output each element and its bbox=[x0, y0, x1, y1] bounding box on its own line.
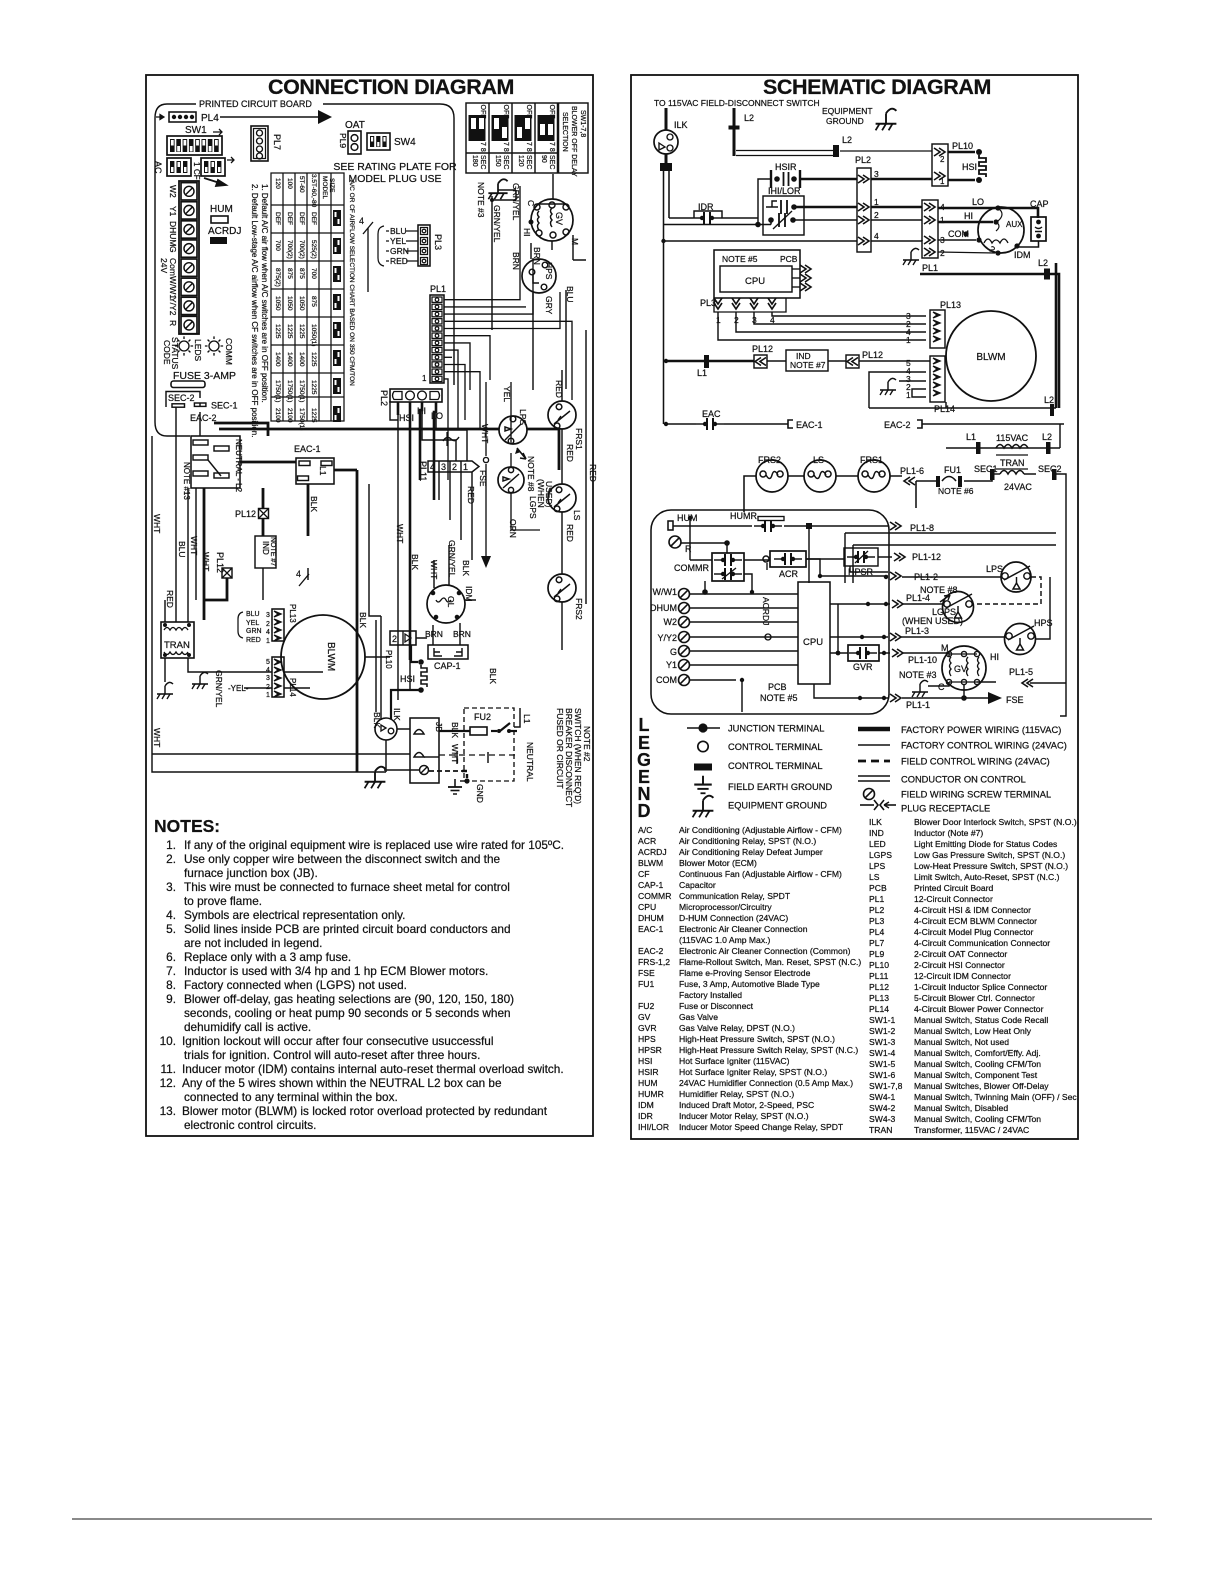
svg-text:Fuse, 3 Amp, Automotive Blade: Fuse, 3 Amp, Automotive Blade Type bbox=[679, 979, 820, 989]
svg-text:L1: L1 bbox=[522, 714, 532, 724]
svg-text:CAP: CAP bbox=[1030, 199, 1049, 209]
svg-text:YEL: YEL bbox=[246, 620, 259, 627]
svg-text:120: 120 bbox=[274, 178, 281, 189]
svg-text:3: 3 bbox=[441, 462, 446, 472]
svg-text:seconds, cooling or heat pump: seconds, cooling or heat pump 90 seconds… bbox=[184, 1006, 511, 1020]
svg-text:3: 3 bbox=[266, 675, 270, 682]
svg-text:PL3: PL3 bbox=[433, 234, 443, 250]
svg-text:PL13: PL13 bbox=[940, 300, 961, 310]
svg-text:This wire must be connected to: This wire must be connected to furnace s… bbox=[184, 880, 510, 894]
svg-text:HPS: HPS bbox=[544, 262, 554, 280]
svg-text:PLUG RECEPTACLE: PLUG RECEPTACLE bbox=[901, 804, 990, 814]
svg-text:2: 2 bbox=[392, 634, 397, 644]
svg-text:LS: LS bbox=[813, 455, 824, 465]
svg-text:FIELD WIRING SCREW TERMINAL: FIELD WIRING SCREW TERMINAL bbox=[901, 790, 1051, 800]
svg-text:Manual Switch, Component Test: Manual Switch, Component Test bbox=[914, 1070, 1038, 1080]
svg-text:1: 1 bbox=[463, 462, 468, 472]
svg-text:ILK: ILK bbox=[869, 817, 882, 827]
svg-text:BLK: BLK bbox=[461, 560, 471, 576]
svg-text:EAC-2: EAC-2 bbox=[190, 413, 217, 423]
svg-text:Blower motor (BLWM) is locked: Blower motor (BLWM) is locked rotor over… bbox=[182, 1104, 548, 1118]
svg-text:EAC-1: EAC-1 bbox=[294, 444, 321, 454]
svg-text:HUM: HUM bbox=[677, 513, 698, 523]
svg-text:Manual Switches, Blower Off-De: Manual Switches, Blower Off-Delay bbox=[914, 1081, 1049, 1091]
svg-text:Use only copper wire between t: Use only copper wire between the disconn… bbox=[184, 852, 501, 866]
svg-text:CONNECTION DIAGRAM: CONNECTION DIAGRAM bbox=[268, 75, 514, 99]
svg-text:GVR: GVR bbox=[853, 662, 873, 672]
svg-text:4: 4 bbox=[266, 629, 270, 636]
svg-text:HSI: HSI bbox=[638, 1056, 652, 1066]
svg-text:G: G bbox=[168, 246, 178, 253]
svg-text:BLK: BLK bbox=[358, 612, 368, 628]
svg-text:LPS: LPS bbox=[986, 564, 1003, 574]
svg-text:Solid lines inside PCB are pri: Solid lines inside PCB are printed circu… bbox=[184, 922, 511, 936]
svg-text:24VAC Humidifier Connection (0: 24VAC Humidifier Connection (0.5 Amp Max… bbox=[679, 1078, 853, 1088]
svg-text:Manual Switch, Comfort/Effy. A: Manual Switch, Comfort/Effy. Adj. bbox=[914, 1048, 1041, 1058]
svg-text:115VAC: 115VAC bbox=[996, 433, 1029, 443]
svg-text:Y1: Y1 bbox=[168, 206, 178, 217]
svg-text:Replace only with a 3 amp fuse: Replace only with a 3 amp fuse. bbox=[184, 950, 351, 964]
svg-text:NOTE #3: NOTE #3 bbox=[899, 670, 937, 680]
svg-text:WHT: WHT bbox=[201, 552, 211, 571]
svg-text:CONTROL TERMINAL: CONTROL TERMINAL bbox=[728, 742, 823, 752]
svg-text:Inductor (Note #7): Inductor (Note #7) bbox=[914, 828, 983, 838]
svg-text:PL9: PL9 bbox=[869, 949, 885, 959]
svg-text:are not included in legend.: are not included in legend. bbox=[184, 936, 322, 950]
svg-text:SW4-2: SW4-2 bbox=[869, 1103, 895, 1113]
svg-text:1: 1 bbox=[940, 177, 945, 186]
svg-text:7 8: 7 8 bbox=[548, 142, 555, 152]
svg-text:L2: L2 bbox=[1044, 395, 1054, 405]
svg-text:SEC: SEC bbox=[502, 155, 509, 169]
svg-text:FACTORY POWER WIRING (115VAC): FACTORY POWER WIRING (115VAC) bbox=[901, 725, 1061, 735]
svg-text:PL1-10: PL1-10 bbox=[908, 655, 937, 665]
svg-text:700: 700 bbox=[310, 268, 317, 279]
svg-text:Air Conditioning Relay Defeat: Air Conditioning Relay Defeat Jumper bbox=[679, 847, 823, 857]
svg-text:L: L bbox=[639, 715, 650, 735]
svg-text:SW1-7,8: SW1-7,8 bbox=[579, 110, 586, 137]
svg-text:electronic control circuits.: electronic control circuits. bbox=[184, 1118, 316, 1132]
svg-text:875: 875 bbox=[298, 268, 305, 279]
svg-text:GV: GV bbox=[638, 1012, 651, 1022]
svg-text:1750(1): 1750(1) bbox=[274, 380, 281, 402]
svg-text:IDM: IDM bbox=[638, 1100, 654, 1110]
svg-text:1: 1 bbox=[266, 692, 270, 699]
svg-text:120: 120 bbox=[517, 155, 524, 167]
svg-text:5.: 5. bbox=[166, 922, 176, 936]
svg-text:2. Default Low-stage A/C airf: 2. Default Low-stage A/C airflow when CF… bbox=[250, 184, 259, 437]
svg-text:Any of the 5 wires shown withi: Any of the 5 wires shown within the NEUT… bbox=[182, 1076, 502, 1090]
svg-text:HI: HI bbox=[522, 228, 532, 237]
svg-text:1225: 1225 bbox=[310, 380, 317, 395]
svg-text:7 8: 7 8 bbox=[525, 142, 532, 152]
svg-text:R: R bbox=[685, 544, 692, 554]
svg-text:RED: RED bbox=[565, 444, 575, 462]
svg-text:PL2: PL2 bbox=[869, 905, 885, 915]
svg-text:Y/Y2: Y/Y2 bbox=[168, 297, 178, 316]
svg-text:Induced Draft Motor, 2-Speed,: Induced Draft Motor, 2-Speed, PSC bbox=[679, 1100, 814, 1110]
svg-text:USED): USED) bbox=[544, 481, 554, 508]
svg-text:FRS2: FRS2 bbox=[758, 455, 781, 465]
svg-text:CF: CF bbox=[638, 869, 649, 879]
svg-text:L1: L1 bbox=[697, 368, 707, 378]
svg-text:CODE: CODE bbox=[162, 340, 172, 365]
svg-text:PL12: PL12 bbox=[235, 509, 256, 519]
svg-text:Blower Motor (ECM): Blower Motor (ECM) bbox=[679, 858, 757, 868]
svg-text:Flame e-Proving Sensor Electro: Flame e-Proving Sensor Electrode bbox=[679, 968, 811, 978]
svg-text:COM: COM bbox=[656, 675, 677, 685]
svg-text:SEC-2: SEC-2 bbox=[168, 393, 195, 403]
svg-text:SW4: SW4 bbox=[394, 137, 416, 148]
svg-text:12-Circuit IDM Connector: 12-Circuit IDM Connector bbox=[914, 971, 1011, 981]
svg-text:BLK: BLK bbox=[488, 668, 498, 684]
svg-text:Flame-Rollout Switch, Man. Res: Flame-Rollout Switch, Man. Reset, SPST (… bbox=[679, 957, 861, 967]
svg-text:700(2): 700(2) bbox=[298, 240, 305, 259]
svg-text:MODEL: MODEL bbox=[321, 176, 328, 200]
svg-text:FSE: FSE bbox=[1006, 695, 1024, 705]
svg-text:GRN/YEL: GRN/YEL bbox=[214, 670, 224, 708]
svg-text:PL4: PL4 bbox=[201, 113, 219, 124]
svg-text:EAC-1: EAC-1 bbox=[638, 924, 664, 934]
svg-text:1400: 1400 bbox=[274, 352, 281, 367]
svg-text:90: 90 bbox=[540, 155, 547, 163]
svg-text:PL2: PL2 bbox=[379, 390, 389, 406]
svg-text:PL11: PL11 bbox=[869, 971, 889, 981]
svg-text:2: 2 bbox=[940, 155, 945, 164]
svg-text:(115VAC 1.0 Amp Max.): (115VAC 1.0 Amp Max.) bbox=[679, 935, 771, 945]
svg-text:1050(1): 1050(1) bbox=[310, 324, 317, 346]
svg-text:1050: 1050 bbox=[274, 296, 281, 311]
svg-text:G: G bbox=[670, 647, 677, 657]
svg-text:3: 3 bbox=[266, 612, 270, 619]
svg-text:FIELD EARTH GROUND: FIELD EARTH GROUND bbox=[728, 782, 832, 792]
svg-text:11.: 11. bbox=[160, 1062, 176, 1076]
svg-text:SEC: SEC bbox=[525, 155, 532, 169]
svg-text:EQUIPMENT: EQUIPMENT bbox=[822, 106, 873, 116]
svg-text:IDR: IDR bbox=[638, 1111, 653, 1121]
svg-text:OAT: OAT bbox=[345, 120, 365, 131]
svg-text:WHT: WHT bbox=[189, 536, 199, 555]
svg-text:DEF: DEF bbox=[310, 212, 317, 225]
svg-text:HSI: HSI bbox=[399, 413, 414, 423]
svg-text:ACRDJ: ACRDJ bbox=[761, 597, 771, 625]
svg-text:1400: 1400 bbox=[298, 352, 305, 367]
svg-text:PL14: PL14 bbox=[869, 1004, 889, 1014]
svg-text:CF: CF bbox=[192, 169, 201, 180]
svg-text:SEE RATING PLATE FOR: SEE RATING PLATE FOR bbox=[333, 161, 457, 173]
svg-text:Manual Switch, Cooling CFM/Ton: Manual Switch, Cooling CFM/Ton bbox=[914, 1114, 1041, 1124]
svg-text:W/W1: W/W1 bbox=[653, 587, 678, 597]
svg-text:LEDS: LEDS bbox=[193, 339, 203, 362]
svg-text:4.: 4. bbox=[166, 908, 176, 922]
svg-text:4-Circuit ECM BLWM Connector: 4-Circuit ECM BLWM Connector bbox=[914, 916, 1037, 926]
svg-text:RED: RED bbox=[165, 590, 175, 608]
svg-text:WHT: WHT bbox=[450, 744, 460, 763]
svg-text:525(2): 525(2) bbox=[310, 240, 317, 259]
svg-text:4: 4 bbox=[430, 462, 435, 472]
svg-text:HSIR: HSIR bbox=[775, 162, 797, 172]
svg-text:PL12: PL12 bbox=[752, 344, 773, 354]
svg-text:2: 2 bbox=[266, 621, 270, 628]
svg-text:2: 2 bbox=[452, 462, 457, 472]
svg-text:RED: RED bbox=[246, 637, 261, 644]
svg-text:TRAN: TRAN bbox=[1000, 458, 1025, 468]
svg-text:1: 1 bbox=[906, 390, 911, 400]
svg-text:PL10: PL10 bbox=[869, 960, 889, 970]
svg-text:CONDUCTOR ON CONTROL: CONDUCTOR ON CONTROL bbox=[901, 775, 1026, 785]
svg-text:Manual Switch, Status Code Rec: Manual Switch, Status Code Recall bbox=[914, 1015, 1048, 1025]
svg-text:PL13: PL13 bbox=[869, 993, 889, 1003]
svg-text:IND: IND bbox=[261, 541, 270, 555]
svg-text:1225: 1225 bbox=[310, 408, 317, 423]
svg-text:TRAN: TRAN bbox=[869, 1125, 892, 1135]
svg-text:GV: GV bbox=[954, 664, 967, 674]
svg-text:12.: 12. bbox=[160, 1076, 176, 1090]
svg-text:3: 3 bbox=[874, 169, 879, 179]
svg-text:GRN: GRN bbox=[246, 628, 262, 635]
svg-text:SW4-3: SW4-3 bbox=[869, 1114, 895, 1124]
svg-text:Inducer Motor Relay, SPST (N.O: Inducer Motor Relay, SPST (N.O.) bbox=[679, 1111, 809, 1121]
svg-text:HPSR: HPSR bbox=[638, 1045, 662, 1055]
svg-text:NOTE #3: NOTE #3 bbox=[476, 182, 486, 218]
svg-text:DEF: DEF bbox=[298, 212, 305, 225]
svg-text:PCB: PCB bbox=[768, 682, 787, 692]
svg-text:GRN/YEL: GRN/YEL bbox=[492, 205, 502, 243]
svg-text:FU2: FU2 bbox=[638, 1001, 654, 1011]
svg-text:FRS-1,2: FRS-1,2 bbox=[638, 957, 670, 967]
svg-text:24V: 24V bbox=[159, 258, 169, 273]
svg-text:BLU: BLU bbox=[246, 611, 260, 618]
svg-text:FU1: FU1 bbox=[638, 979, 654, 989]
svg-text:1750(1): 1750(1) bbox=[298, 408, 305, 430]
svg-text:SW1-1: SW1-1 bbox=[869, 1015, 895, 1025]
svg-text:Inductor is used with 3/4 hp a: Inductor is used with 3/4 hp and 1 hp EC… bbox=[184, 964, 488, 978]
svg-text:IDM: IDM bbox=[1014, 250, 1031, 260]
svg-text:1: 1 bbox=[266, 638, 270, 645]
svg-text:PL1: PL1 bbox=[869, 894, 885, 904]
svg-text:LPS: LPS bbox=[869, 861, 886, 871]
svg-text:NEUTRAL: NEUTRAL bbox=[525, 742, 535, 782]
svg-text:AUX: AUX bbox=[1006, 220, 1023, 229]
svg-text:LS: LS bbox=[869, 872, 880, 882]
svg-text:NOTE #6: NOTE #6 bbox=[938, 486, 974, 496]
svg-text:CAP-1: CAP-1 bbox=[638, 880, 664, 890]
svg-text:SWITCH (WHEN REQ'D): SWITCH (WHEN REQ'D) bbox=[573, 708, 583, 804]
svg-text:HUM: HUM bbox=[638, 1078, 658, 1088]
svg-text:BLU: BLU bbox=[177, 541, 187, 558]
svg-text:2100: 2100 bbox=[274, 408, 281, 423]
svg-text:COMM: COMM bbox=[224, 338, 234, 365]
svg-text:SCHEMATIC DIAGRAM: SCHEMATIC DIAGRAM bbox=[763, 75, 991, 99]
svg-text:EQUIPMENT GROUND: EQUIPMENT GROUND bbox=[728, 801, 827, 811]
svg-text:NOTES:: NOTES: bbox=[154, 816, 220, 836]
svg-text:Printed Circuit Board: Printed Circuit Board bbox=[914, 883, 994, 893]
svg-text:WHT: WHT bbox=[152, 728, 162, 747]
svg-text:HSI: HSI bbox=[962, 162, 977, 172]
svg-text:IND: IND bbox=[869, 828, 884, 838]
svg-text:3.: 3. bbox=[166, 880, 176, 894]
svg-text:ILK: ILK bbox=[392, 708, 402, 721]
svg-text:Fuse or Disconnect: Fuse or Disconnect bbox=[679, 1001, 754, 1011]
svg-text:HI: HI bbox=[964, 211, 973, 221]
svg-text:Symbols are electrical represe: Symbols are electrical representation on… bbox=[184, 908, 405, 922]
svg-text:AC: AC bbox=[153, 161, 163, 174]
svg-text:PL2: PL2 bbox=[855, 155, 871, 165]
svg-text:Air Conditioning (Adjustable A: Air Conditioning (Adjustable Airflow - C… bbox=[679, 825, 842, 835]
svg-text:PL14: PL14 bbox=[934, 404, 955, 414]
svg-text:EAC-2: EAC-2 bbox=[638, 946, 664, 956]
svg-text:BLU: BLU bbox=[390, 226, 407, 236]
svg-text:IHI/LOR: IHI/LOR bbox=[768, 186, 801, 196]
svg-text:FACTORY CONTROL WIRING (24VAC): FACTORY CONTROL WIRING (24VAC) bbox=[901, 741, 1067, 751]
svg-text:BLK: BLK bbox=[309, 496, 319, 512]
svg-text:L2: L2 bbox=[1042, 432, 1052, 442]
svg-text:ACR: ACR bbox=[638, 836, 656, 846]
svg-text:2-Circuit HSI Connector: 2-Circuit HSI Connector bbox=[914, 960, 1005, 970]
svg-text:Low Gas Pressure Switch, SPST: Low Gas Pressure Switch, SPST (N.O.) bbox=[914, 850, 1065, 860]
svg-text:Blower Door Interlock Switch,: Blower Door Interlock Switch, SPST (N.O.… bbox=[914, 817, 1077, 827]
svg-text:FRS1: FRS1 bbox=[860, 455, 883, 465]
svg-text:PL4: PL4 bbox=[869, 927, 885, 937]
svg-text:4: 4 bbox=[359, 216, 364, 226]
svg-text:9.: 9. bbox=[166, 992, 176, 1006]
svg-text:JUNCTION TERMINAL: JUNCTION TERMINAL bbox=[728, 724, 824, 734]
svg-text:BLWM: BLWM bbox=[638, 858, 663, 868]
svg-text:1. Default A/C air flow when: 1. Default A/C air flow when A/C switche… bbox=[260, 184, 269, 403]
svg-text:SW1: SW1 bbox=[185, 125, 207, 136]
svg-text:CAP-1: CAP-1 bbox=[434, 661, 461, 671]
svg-text:SW4-1: SW4-1 bbox=[869, 1092, 895, 1102]
svg-text:BLK: BLK bbox=[410, 554, 420, 570]
svg-text:High-Heat Pressure Switch, SPS: High-Heat Pressure Switch, SPST (N.O.) bbox=[679, 1034, 835, 1044]
svg-text:Electronic Air Cleaner Connect: Electronic Air Cleaner Connection bbox=[679, 924, 808, 934]
svg-text:FUSED OR CIRCUIT: FUSED OR CIRCUIT bbox=[555, 708, 565, 789]
svg-text:EAC: EAC bbox=[702, 409, 721, 419]
svg-text:HSI: HSI bbox=[400, 674, 415, 684]
svg-text:1050: 1050 bbox=[298, 296, 305, 311]
svg-text:A/C: A/C bbox=[638, 825, 652, 835]
svg-text:1225: 1225 bbox=[286, 324, 293, 339]
svg-text:GROUND: GROUND bbox=[826, 116, 864, 126]
svg-text:IHI/LOR: IHI/LOR bbox=[638, 1122, 669, 1132]
svg-text:Manual Switch, Not used: Manual Switch, Not used bbox=[914, 1037, 1009, 1047]
svg-text:HUM: HUM bbox=[210, 204, 233, 215]
svg-text:HUMR: HUMR bbox=[638, 1089, 664, 1099]
svg-text:HPS: HPS bbox=[638, 1034, 656, 1044]
svg-text:2.: 2. bbox=[166, 852, 176, 866]
svg-text:1400: 1400 bbox=[286, 352, 293, 367]
svg-text:Capacitor: Capacitor bbox=[679, 880, 716, 890]
svg-text:HI: HI bbox=[990, 652, 999, 662]
svg-text:4-Circuit Blower Power Connect: 4-Circuit Blower Power Connector bbox=[914, 1004, 1044, 1014]
svg-text:BRN: BRN bbox=[453, 629, 471, 639]
svg-text:4: 4 bbox=[874, 231, 879, 241]
svg-text:SIZE: SIZE bbox=[328, 178, 335, 193]
svg-text:SW1-5: SW1-5 bbox=[869, 1059, 895, 1069]
svg-text:PL1: PL1 bbox=[922, 263, 938, 273]
svg-text:ILK: ILK bbox=[674, 120, 688, 130]
svg-text:SW1-7,8: SW1-7,8 bbox=[869, 1081, 903, 1091]
svg-text:W2: W2 bbox=[664, 617, 678, 627]
svg-text:COMMR: COMMR bbox=[638, 891, 671, 901]
svg-text:DHUM: DHUM bbox=[638, 913, 664, 923]
svg-text:NOTE #8: NOTE #8 bbox=[526, 456, 536, 492]
svg-text:NOTE #7: NOTE #7 bbox=[269, 537, 276, 566]
svg-text:Light Emitting Diode for Statu: Light Emitting Diode for Status Codes bbox=[914, 839, 1057, 849]
svg-text:L1: L1 bbox=[318, 466, 328, 476]
svg-text:Limit Switch, Auto-Reset, SPST: Limit Switch, Auto-Reset, SPST (N.C.) bbox=[914, 872, 1060, 882]
svg-text:SW1-2: SW1-2 bbox=[869, 1026, 895, 1036]
svg-text:WHT: WHT bbox=[480, 424, 490, 443]
svg-text:CPU: CPU bbox=[803, 637, 823, 648]
svg-text:PL12: PL12 bbox=[869, 982, 889, 992]
svg-text:24VAC: 24VAC bbox=[1004, 482, 1032, 492]
svg-text:4-Circuit Communication Connec: 4-Circuit Communication Connector bbox=[914, 938, 1050, 948]
svg-text:SELECTION: SELECTION bbox=[561, 112, 568, 152]
svg-text:IDM: IDM bbox=[464, 586, 474, 602]
svg-text:Ignition lockout will occur af: Ignition lockout will occur after four c… bbox=[182, 1034, 493, 1048]
svg-text:NOTE #7: NOTE #7 bbox=[790, 360, 826, 370]
svg-text:PL1-6: PL1-6 bbox=[900, 466, 924, 476]
svg-text:LS: LS bbox=[572, 510, 582, 521]
svg-text:Electronic Air Cleaner Connect: Electronic Air Cleaner Connection (Commo… bbox=[679, 946, 851, 956]
svg-text:to prove flame.: to prove flame. bbox=[184, 894, 262, 908]
svg-text:100: 100 bbox=[286, 178, 293, 189]
svg-text:PL13: PL13 bbox=[288, 604, 297, 623]
svg-text:Air Conditioning Relay, SPST (: Air Conditioning Relay, SPST (N.O.) bbox=[679, 836, 816, 846]
svg-text:1: 1 bbox=[192, 162, 201, 167]
svg-text:FIELD CONTROL WIRING (24VAC): FIELD CONTROL WIRING (24VAC) bbox=[901, 757, 1050, 767]
svg-text:GVR: GVR bbox=[638, 1023, 657, 1033]
svg-text:GRY: GRY bbox=[544, 296, 554, 315]
svg-text:4: 4 bbox=[266, 667, 270, 674]
svg-text:SW1-4: SW1-4 bbox=[869, 1048, 895, 1058]
svg-text:6.: 6. bbox=[166, 950, 176, 964]
svg-text:1225: 1225 bbox=[274, 324, 281, 339]
svg-text:PCB: PCB bbox=[869, 883, 887, 893]
svg-text:TRAN: TRAN bbox=[164, 640, 190, 651]
svg-text:R: R bbox=[168, 320, 178, 326]
svg-text:Factory connected when (LGPS): Factory connected when (LGPS) not used. bbox=[184, 978, 407, 992]
svg-text:CONTROL TERMINAL: CONTROL TERMINAL bbox=[728, 761, 823, 771]
svg-text:FU2: FU2 bbox=[474, 712, 491, 722]
svg-text:EAC-2: EAC-2 bbox=[884, 420, 911, 430]
svg-text:GV: GV bbox=[554, 212, 564, 225]
svg-text:Manual Switch, Cooling CFM/Ton: Manual Switch, Cooling CFM/Ton bbox=[914, 1059, 1041, 1069]
svg-text:2: 2 bbox=[940, 248, 945, 258]
svg-text:HUMR: HUMR bbox=[730, 511, 757, 521]
svg-text:Gas Valve Relay, DPST (N.O.): Gas Valve Relay, DPST (N.O.) bbox=[679, 1023, 795, 1033]
svg-text:BLOWER OFF DELAY: BLOWER OFF DELAY bbox=[570, 106, 577, 177]
svg-text:L2: L2 bbox=[744, 113, 754, 123]
svg-text:13.: 13. bbox=[160, 1104, 176, 1118]
svg-text:D: D bbox=[638, 801, 651, 821]
svg-text:W/W1: W/W1 bbox=[168, 276, 178, 299]
svg-text:PL1-3: PL1-3 bbox=[905, 626, 929, 636]
svg-text:700(2): 700(2) bbox=[286, 240, 293, 259]
svg-text:NOTE #2: NOTE #2 bbox=[582, 726, 592, 762]
svg-text:SEC2: SEC2 bbox=[1038, 464, 1062, 474]
svg-text:connected to any terminal with: connected to any terminal within the box… bbox=[184, 1090, 398, 1104]
svg-text:BRN: BRN bbox=[425, 629, 443, 639]
svg-text:C: C bbox=[938, 682, 945, 692]
svg-text:Humidifier Relay, SPST (N.O.): Humidifier Relay, SPST (N.O.) bbox=[679, 1089, 794, 1099]
svg-text:L2: L2 bbox=[1038, 258, 1048, 268]
svg-text:Blower off-delay, gas heating: Blower off-delay, gas heating selections… bbox=[184, 992, 514, 1006]
svg-text:FSE: FSE bbox=[478, 470, 488, 487]
svg-text:TO 115VAC FIELD-DISCONNECT SWI: TO 115VAC FIELD-DISCONNECT SWITCH bbox=[654, 98, 820, 108]
svg-text:PL1-12: PL1-12 bbox=[912, 552, 941, 562]
